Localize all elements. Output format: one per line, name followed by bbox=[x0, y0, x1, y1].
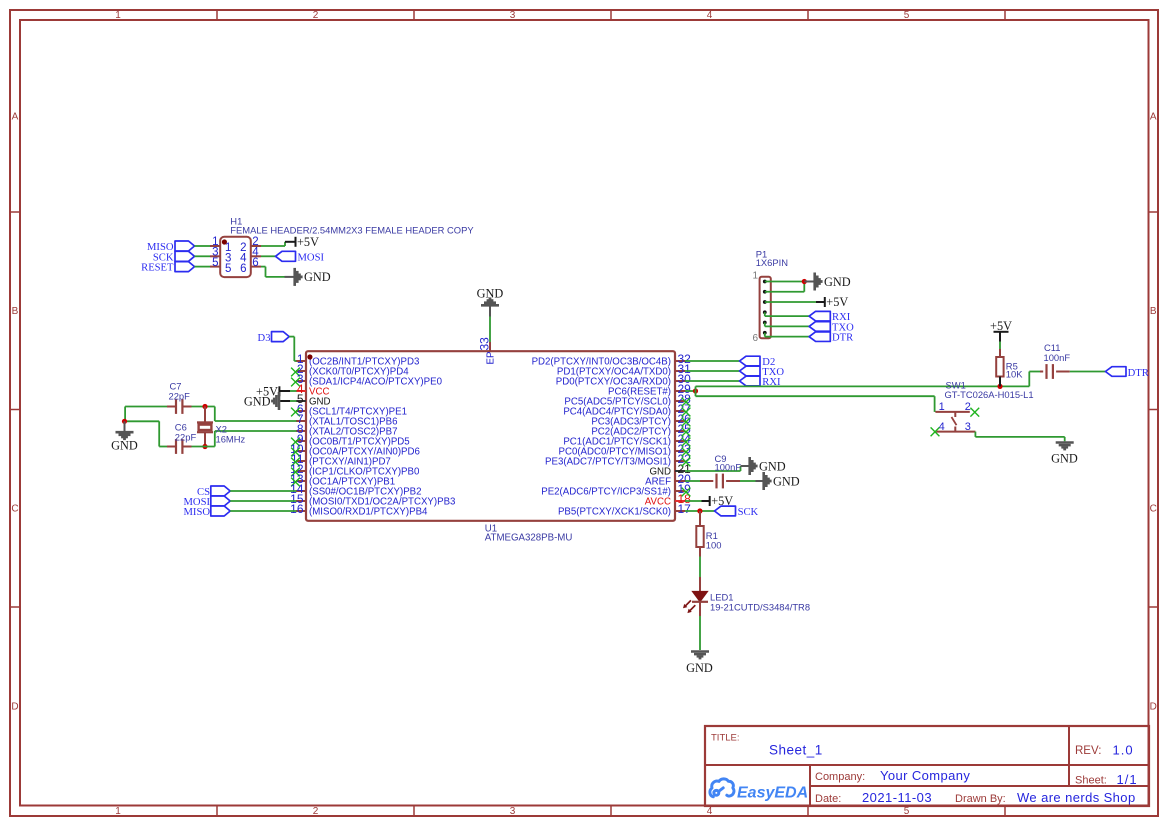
svg-text:TITLE:: TITLE: bbox=[711, 733, 740, 744]
svg-text:PC1(ADC1/PTCY/SCK1): PC1(ADC1/PTCY/SCK1) bbox=[563, 437, 671, 448]
svg-text:GND: GND bbox=[111, 438, 138, 452]
svg-text:Sheet_1: Sheet_1 bbox=[769, 743, 823, 758]
svg-text:PE3(ADC7/PTCY/T3/MOSI1): PE3(ADC7/PTCY/T3/MOSI1) bbox=[545, 457, 671, 468]
svg-text:100: 100 bbox=[706, 540, 722, 551]
svg-text:PC5(ADC5/PTCY/SCL0): PC5(ADC5/PTCY/SCL0) bbox=[564, 397, 671, 408]
svg-text:6: 6 bbox=[252, 257, 258, 269]
svg-text:PB5(PTCXY/XCK1/SCK0): PB5(PTCXY/XCK1/SCK0) bbox=[558, 507, 671, 518]
svg-text:Sheet:: Sheet: bbox=[1075, 775, 1107, 787]
svg-text:22pF: 22pF bbox=[175, 431, 197, 442]
svg-text:Your Company: Your Company bbox=[880, 768, 970, 783]
svg-text:Company:: Company: bbox=[815, 771, 865, 783]
svg-text:GND: GND bbox=[304, 270, 331, 284]
svg-text:AREF: AREF bbox=[645, 477, 671, 488]
svg-text:5: 5 bbox=[225, 263, 231, 275]
svg-text:16MHz: 16MHz bbox=[216, 433, 246, 444]
svg-text:D: D bbox=[11, 702, 18, 713]
svg-text:100nF: 100nF bbox=[715, 461, 742, 472]
svg-text:2: 2 bbox=[313, 806, 319, 817]
svg-text:GND: GND bbox=[686, 661, 713, 675]
svg-text:EasyEDA: EasyEDA bbox=[737, 785, 808, 802]
svg-text:B: B bbox=[1150, 306, 1157, 317]
svg-text:A: A bbox=[12, 112, 19, 123]
svg-text:MISO: MISO bbox=[184, 507, 211, 518]
svg-text:1: 1 bbox=[115, 806, 121, 817]
svg-text:We are nerds Shop: We are nerds Shop bbox=[1017, 790, 1136, 805]
svg-text:1: 1 bbox=[752, 271, 758, 282]
svg-text:16: 16 bbox=[290, 502, 304, 516]
svg-text:EP: EP bbox=[486, 352, 497, 365]
svg-text:MOSI: MOSI bbox=[298, 253, 325, 264]
svg-text:DTR: DTR bbox=[832, 333, 854, 344]
svg-text:22pF: 22pF bbox=[169, 391, 191, 402]
svg-text:C: C bbox=[11, 504, 18, 515]
svg-text:+5V: +5V bbox=[826, 295, 848, 309]
svg-text:C: C bbox=[1150, 504, 1157, 515]
svg-text:PE2(ADC6/PTCY/ICP3/SS1#): PE2(ADC6/PTCY/ICP3/SS1#) bbox=[541, 487, 671, 498]
svg-text:4: 4 bbox=[707, 806, 713, 817]
svg-text:PC6(RESET#): PC6(RESET#) bbox=[608, 387, 671, 398]
svg-text:PD0(PTCXY/OC3A/RXD0): PD0(PTCXY/OC3A/RXD0) bbox=[556, 377, 671, 388]
svg-text:32: 32 bbox=[678, 352, 692, 366]
svg-text:2: 2 bbox=[313, 10, 319, 21]
svg-text:Date:: Date: bbox=[815, 793, 841, 805]
svg-text:GND: GND bbox=[1051, 451, 1078, 465]
svg-text:1X6PIN: 1X6PIN bbox=[756, 257, 788, 268]
svg-text:4: 4 bbox=[707, 10, 713, 21]
svg-text:REV:: REV: bbox=[1075, 745, 1101, 757]
svg-text:19-21CUTD/S3484/TR8: 19-21CUTD/S3484/TR8 bbox=[710, 601, 810, 612]
svg-text:6: 6 bbox=[752, 333, 758, 344]
svg-text:SCK: SCK bbox=[738, 507, 759, 518]
svg-text:5: 5 bbox=[904, 10, 910, 21]
svg-text:A: A bbox=[1150, 112, 1157, 123]
svg-text:2021-11-03: 2021-11-03 bbox=[862, 790, 932, 805]
svg-text:100nF: 100nF bbox=[1044, 352, 1071, 363]
svg-text:GND: GND bbox=[773, 474, 800, 488]
svg-text:2: 2 bbox=[965, 401, 971, 413]
svg-text:DTR: DTR bbox=[1128, 368, 1150, 379]
svg-text:AVCC: AVCC bbox=[645, 497, 671, 508]
svg-text:Drawn By:: Drawn By: bbox=[955, 793, 1006, 805]
svg-text:FEMALE HEADER/2.54MM2X3 FEMALE: FEMALE HEADER/2.54MM2X3 FEMALE HEADER CO… bbox=[230, 225, 474, 236]
svg-text:D: D bbox=[1150, 702, 1157, 713]
svg-text:GND: GND bbox=[824, 275, 851, 289]
svg-text:1: 1 bbox=[115, 10, 121, 21]
svg-text:6: 6 bbox=[240, 263, 246, 275]
svg-text:1: 1 bbox=[939, 401, 945, 413]
svg-text:GND: GND bbox=[244, 394, 271, 408]
svg-text:ATMEGA328PB-MU: ATMEGA328PB-MU bbox=[485, 533, 573, 544]
svg-text:3: 3 bbox=[965, 421, 971, 433]
svg-text:GT-TC026A-H015-L1: GT-TC026A-H015-L1 bbox=[945, 389, 1034, 400]
svg-text:PC0(ADC0/PTCY/MISO1): PC0(ADC0/PTCY/MISO1) bbox=[558, 447, 671, 458]
svg-text:1.0: 1.0 bbox=[1113, 742, 1134, 757]
svg-text:PC4(ADC4/PTCY/SDA0): PC4(ADC4/PTCY/SDA0) bbox=[563, 407, 671, 418]
svg-text:5: 5 bbox=[212, 257, 218, 269]
svg-text:PC2(ADC2/PTCY): PC2(ADC2/PTCY) bbox=[591, 427, 671, 438]
svg-text:(MISO0/RXD1/PTCXY)PB4: (MISO0/RXD1/PTCXY)PB4 bbox=[309, 507, 428, 518]
svg-text:PD2(PTCXY/INT0/OC3B/OC4B): PD2(PTCXY/INT0/OC3B/OC4B) bbox=[532, 357, 671, 368]
svg-text:PD1(PTCXY/OC4A/TXD0): PD1(PTCXY/OC4A/TXD0) bbox=[557, 367, 671, 378]
svg-text:GND: GND bbox=[759, 459, 786, 473]
svg-text:PC3(ADC3/PTCY): PC3(ADC3/PTCY) bbox=[591, 417, 671, 428]
svg-text:3: 3 bbox=[510, 10, 516, 21]
svg-text:+5V: +5V bbox=[297, 235, 319, 249]
svg-text:B: B bbox=[12, 306, 19, 317]
svg-text:1/1: 1/1 bbox=[1117, 772, 1138, 787]
svg-text:GND: GND bbox=[477, 287, 504, 301]
svg-text:10K: 10K bbox=[1006, 369, 1023, 380]
svg-text:D3: D3 bbox=[258, 333, 271, 344]
svg-text:4: 4 bbox=[939, 421, 945, 433]
svg-text:5: 5 bbox=[904, 806, 910, 817]
svg-text:RESET: RESET bbox=[141, 263, 174, 274]
svg-text:3: 3 bbox=[510, 806, 516, 817]
svg-text:GND: GND bbox=[649, 467, 671, 478]
